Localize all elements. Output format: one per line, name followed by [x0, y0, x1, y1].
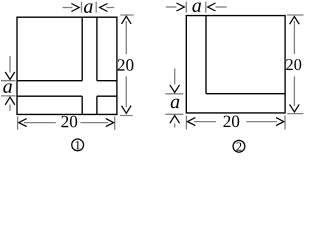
figure 1 top dimension a : right arrow [100, 4, 115, 12]
figure 1 left dimension a : up arrow [5, 97, 15, 111]
figure 2 right dimension 20 : up arrowhead [290, 17, 300, 25]
figure 1 right dimension 20 : ticks [120, 15, 134, 116]
figure 1 right dimension 20 : down arrowhead [122, 106, 132, 114]
figure 1 horizontal slot edge bottom [17, 95, 117, 97]
figure 1 bottom dimension 20 : label [61, 116, 77, 128]
figure 2 left dimension a : up arrow [170, 116, 180, 128]
figure 2 top dimension a : extension bars [186, 2, 206, 13]
figure 1 right dimension 20 : label [118, 59, 134, 71]
figure 1 bottom dimension 20 : right arrowhead [106, 119, 114, 127]
figure 1 top dimension a : left arrow [63, 4, 80, 12]
figure 1 caption circled 1 [72, 139, 84, 151]
figure 2 left dimension a : label a [171, 99, 180, 109]
figure 1 top dimension a : extension bars [82, 2, 97, 13]
figure 2 top dimension a : right-pointing arrow [166, 3, 185, 11]
figure 2 bottom dimension 20 : ticks [186, 116, 285, 130]
figure 1 top dimension a : label a [84, 3, 93, 13]
figure 1 bottom dimension 20 : left arrowhead [19, 119, 27, 127]
figure 2 top dimension a : label a [192, 2, 201, 12]
figure 2 right dimension 20 : down arrowhead [290, 104, 300, 112]
figure 1 left dimension a : ticks [1, 81, 16, 96]
figure 1 left dimension a : down arrow [5, 56, 15, 80]
figure 2 right dimension 20 : label [286, 59, 301, 70]
figure 1 right dimension 20 : up arrowhead [122, 16, 132, 24]
figure 1 bottom dimension 20 : ticks [18, 117, 115, 130]
figure 2 caption circled 2 [233, 140, 245, 152]
figure 1 horizontal slot edge top [17, 80, 117, 82]
figure 2 right dimension 20 : ticks [287, 15, 304, 114]
figure 2 bottom dimension 20 : line [194, 121, 277, 123]
figure 2 inner horizontal edge [206, 93, 285, 95]
figure 1 vertical slot edge left [81, 17, 83, 114]
figure 1 bottom dimension 20 : line [24, 122, 108, 124]
figure 1 right dimension 20 : line [125, 21, 127, 107]
figure 1 left dimension a : label a [3, 83, 12, 93]
figure 1 vertical slot edge right [96, 17, 98, 114]
figure 2 left dimension a : ticks [166, 94, 184, 115]
figure 2 top dimension a : left-pointing arrow [208, 3, 227, 11]
figure 2 bottom dimension 20 : right arrowhead [276, 118, 284, 126]
figure 2 left dimension a : down arrow [170, 69, 180, 93]
figure 2 inner vertical edge [205, 16, 207, 94]
figure 2 bottom dimension 20 : left arrowhead [188, 118, 196, 126]
figure 1 outer square [17, 17, 117, 114]
figure 2 right dimension 20 : line [293, 21, 295, 106]
figure 2 bottom dimension 20 : label [223, 116, 239, 128]
figure 2 outer square [186, 16, 285, 113]
